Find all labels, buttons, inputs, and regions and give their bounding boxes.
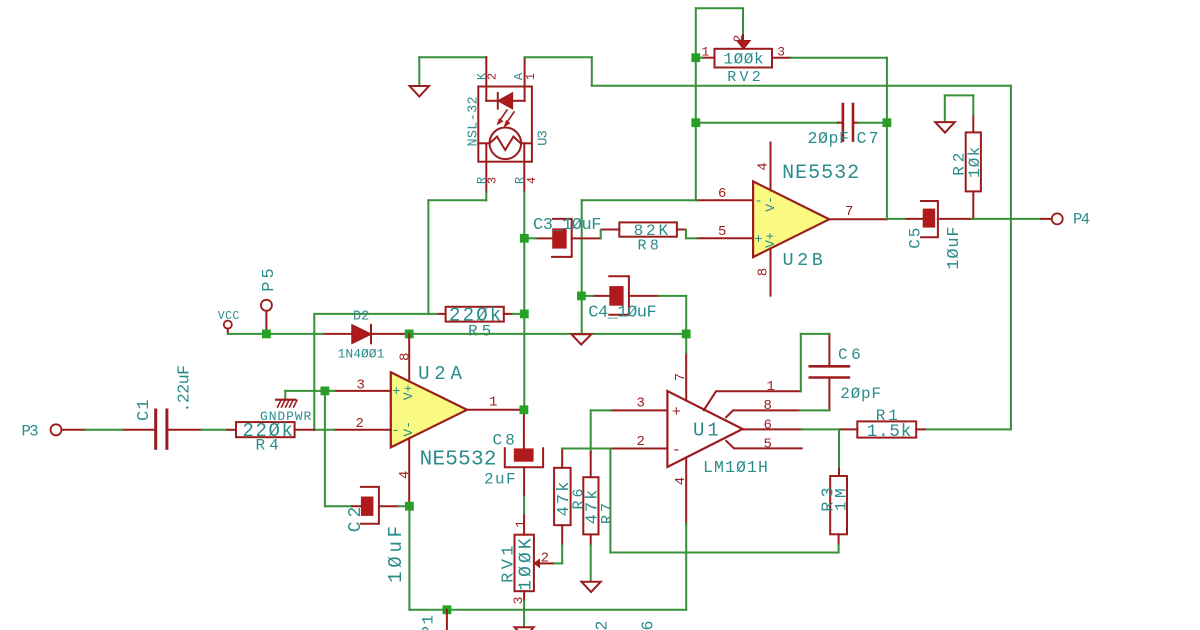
wire	[523, 496, 525, 513]
svg-text:1ØØk: 1ØØk	[724, 51, 765, 69]
capacitor C2	[346, 487, 407, 583]
svg-text:2: 2	[731, 35, 746, 43]
wire	[523, 601, 525, 627]
svg-text:4: 4	[397, 471, 413, 479]
svg-text:1: 1	[489, 394, 497, 410]
capacitor C1	[123, 365, 202, 448]
ground	[515, 627, 534, 630]
svg-text:+: +	[754, 232, 762, 248]
svg-text:R6: R6	[570, 485, 587, 509]
capacitor C6	[810, 334, 882, 411]
svg-text:3: 3	[637, 396, 645, 412]
junction	[691, 53, 700, 62]
wire	[581, 295, 593, 297]
wire	[800, 334, 830, 411]
wire	[685, 334, 687, 610]
ground	[572, 334, 592, 344]
svg-text:C1: C1	[135, 398, 154, 421]
wire	[590, 545, 592, 582]
wire	[695, 58, 697, 201]
junction	[577, 292, 586, 301]
optocoupler U3	[466, 57, 551, 192]
wire	[85, 429, 334, 431]
svg-text:4: 4	[673, 477, 689, 485]
wire	[398, 505, 409, 507]
op-amp U1	[611, 353, 802, 523]
wire	[658, 296, 686, 334]
svg-text:D2: D2	[353, 310, 369, 325]
wire	[696, 122, 838, 124]
junction	[262, 330, 271, 339]
connector P4	[1041, 210, 1090, 228]
svg-text:NSL-32: NSL-32	[466, 96, 481, 146]
wire	[409, 609, 686, 611]
potentiometer RV1	[499, 513, 552, 604]
svg-text:2: 2	[356, 416, 364, 432]
wire	[408, 506, 410, 610]
wire	[525, 57, 1011, 429]
svg-text:VCC: VCC	[218, 310, 240, 323]
wire	[838, 429, 840, 466]
op-amp U2A	[334, 334, 524, 506]
capacitor C8	[484, 413, 543, 496]
wire	[791, 58, 887, 220]
svg-text:1N4ØØ1: 1N4ØØ1	[338, 347, 385, 362]
svg-text:7: 7	[845, 204, 853, 220]
svg-text:2uF: 2uF	[484, 470, 517, 488]
svg-text:2: 2	[485, 73, 499, 80]
svg-text:C3_1ØuF: C3_1ØuF	[533, 216, 601, 235]
svg-text:R5: R5	[468, 323, 495, 341]
svg-text:U3: U3	[535, 131, 551, 146]
svg-text:C6: C6	[838, 346, 864, 364]
svg-text:4: 4	[525, 177, 539, 184]
svg-text:LM1Ø1H: LM1Ø1H	[703, 458, 769, 477]
wire	[419, 56, 486, 58]
junction	[691, 118, 700, 127]
junction	[405, 502, 414, 511]
svg-text:+: +	[672, 404, 681, 421]
ground	[410, 57, 429, 96]
ground	[935, 122, 955, 133]
svg-text:R8: R8	[638, 237, 663, 254]
svg-text:V+: V+	[401, 384, 416, 400]
wire	[553, 449, 611, 564]
ground GNDPWR	[260, 391, 312, 424]
svg-text:P2: P2	[593, 619, 612, 630]
capacitor C5	[905, 201, 972, 270]
svg-text:C8: C8	[493, 431, 519, 449]
wire	[600, 230, 602, 239]
junction	[520, 405, 529, 414]
resistor R5	[437, 304, 513, 340]
svg-text:1ØuF: 1ØuF	[385, 522, 407, 583]
connector P1	[420, 610, 447, 630]
svg-text:-: -	[391, 423, 399, 439]
capacitor C4	[588, 276, 658, 322]
diode D2	[323, 310, 409, 362]
wire	[285, 391, 352, 506]
junction	[520, 310, 529, 319]
svg-text:R7: R7	[599, 500, 616, 524]
svg-text:5: 5	[718, 224, 726, 240]
svg-text:-: -	[672, 442, 681, 459]
svg-text:2: 2	[541, 551, 549, 567]
connector P5	[260, 265, 279, 334]
wire	[314, 192, 524, 430]
svg-text:C5: C5	[906, 226, 924, 249]
svg-text:1: 1	[767, 379, 775, 395]
svg-text:1Øk: 1Øk	[966, 146, 984, 178]
svg-text:R4: R4	[256, 437, 283, 455]
svg-text:P4: P4	[1073, 210, 1090, 228]
svg-text:2ØpF: 2ØpF	[808, 129, 850, 148]
wire	[686, 230, 697, 239]
capacitor C7	[808, 104, 881, 148]
ground	[582, 582, 601, 592]
svg-text:3: 3	[357, 378, 365, 394]
wire	[228, 333, 323, 335]
wire	[591, 410, 611, 452]
svg-text:1: 1	[524, 73, 538, 80]
wire	[858, 122, 887, 124]
svg-text:4: 4	[755, 162, 771, 170]
op-amp U2B	[697, 143, 887, 296]
svg-text:6: 6	[718, 186, 726, 202]
resistor R6	[554, 449, 587, 545]
svg-text:1: 1	[513, 520, 528, 528]
wire	[802, 428, 840, 430]
svg-text:P3: P3	[22, 422, 39, 440]
wire	[610, 449, 838, 553]
resistor R3	[820, 467, 851, 545]
connector P3	[22, 422, 86, 440]
junction	[682, 330, 691, 339]
svg-text:NE5532: NE5532	[420, 448, 497, 471]
svg-text:6: 6	[764, 418, 772, 434]
svg-text:V+: V+	[763, 232, 778, 248]
junction	[883, 118, 892, 127]
wire	[581, 200, 583, 334]
svg-text:.22uF: .22uF	[175, 365, 194, 412]
svg-text:U2B: U2B	[783, 250, 827, 271]
svg-text:5: 5	[764, 437, 772, 453]
capacitor C3	[533, 216, 601, 257]
wire	[945, 95, 974, 122]
wire	[696, 8, 743, 57]
junction	[321, 387, 330, 396]
wire	[524, 237, 536, 239]
supply VCC	[218, 310, 240, 334]
svg-text:U1: U1	[693, 420, 722, 442]
resistor R7	[583, 452, 616, 545]
svg-text:V-: V-	[763, 196, 778, 212]
svg-text:NE5532: NE5532	[782, 162, 860, 185]
svg-text:2: 2	[637, 434, 645, 450]
resistor R8	[601, 222, 686, 255]
wire	[887, 218, 1041, 220]
wire	[523, 192, 525, 410]
svg-text:R1: R1	[876, 407, 901, 425]
svg-text:1ØØK: 1ØØK	[517, 535, 537, 591]
svg-text:1M: 1M	[833, 485, 851, 511]
junction	[405, 330, 414, 339]
svg-text:3: 3	[777, 45, 785, 60]
resistor R4	[227, 420, 314, 455]
junction	[443, 605, 452, 614]
junction	[520, 234, 529, 243]
svg-text:8: 8	[764, 398, 772, 414]
svg-text:-: -	[754, 194, 762, 210]
svg-text:1ØuF: 1ØuF	[945, 226, 964, 270]
resistor R2	[951, 115, 985, 219]
svg-text:P6: P6	[639, 619, 658, 630]
svg-text:RV2: RV2	[727, 69, 764, 86]
svg-text:C4_1ØuF: C4_1ØuF	[588, 304, 656, 323]
svg-text:+: +	[392, 384, 400, 400]
svg-text:U2A: U2A	[418, 363, 467, 385]
resistor R1	[840, 407, 925, 442]
wire	[582, 199, 697, 201]
potentiometer RV2	[702, 33, 791, 86]
svg-text:8: 8	[397, 353, 413, 361]
svg-text:3: 3	[486, 177, 500, 184]
svg-text:V-: V-	[401, 421, 416, 437]
svg-text:C2: C2	[346, 503, 366, 533]
svg-text:7: 7	[673, 373, 689, 381]
svg-text:P1: P1	[420, 613, 438, 630]
svg-text:C7: C7	[857, 129, 881, 148]
svg-text:8: 8	[755, 268, 771, 276]
svg-text:2ØpF: 2ØpF	[840, 385, 882, 403]
svg-text:P5: P5	[260, 265, 279, 291]
wire	[409, 333, 686, 335]
